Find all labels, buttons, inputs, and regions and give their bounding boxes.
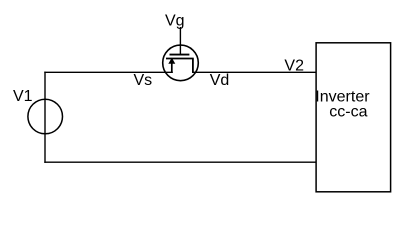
svg-text:Vg: Vg bbox=[165, 13, 185, 30]
wire bottom return rail bbox=[44, 161, 317, 163]
transistor M1 body circle bbox=[163, 45, 199, 81]
svg-text:V2: V2 bbox=[284, 58, 304, 75]
svg-text:cc-ca: cc-ca bbox=[329, 104, 367, 121]
inverter block U1 bbox=[316, 43, 391, 192]
svg-text:Vs: Vs bbox=[134, 72, 153, 89]
transistor M1 source leg bbox=[171, 59, 173, 74]
transistor M1 source arrow bbox=[168, 58, 175, 64]
svg-text:V1: V1 bbox=[13, 88, 33, 105]
svg-text:Vd: Vd bbox=[210, 72, 230, 89]
wire Vd rail (transistor drain to inverter block, node V2) bbox=[192, 71, 317, 73]
transistor M1 channel bar bbox=[166, 58, 194, 60]
transistor M1 gate bar bbox=[170, 54, 190, 56]
voltage source V1 bbox=[28, 99, 63, 134]
transistor M1 gate wire bbox=[179, 27, 181, 55]
wire Vs rail (V1 to transistor source) bbox=[44, 71, 173, 73]
wire left vertical (through source V1) bbox=[44, 72, 46, 163]
transistor M1 drain leg bbox=[192, 59, 194, 74]
